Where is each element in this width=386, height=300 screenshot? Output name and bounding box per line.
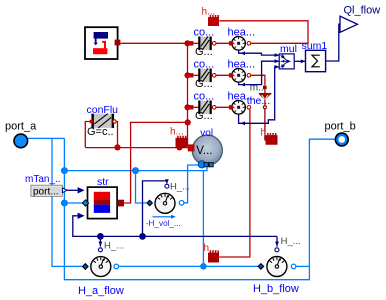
- fluid port_a: [14, 134, 28, 148]
- svg-text:G...: G...: [195, 110, 213, 122]
- signal heaFloBot.Q_flow to mul in3: [239, 67, 280, 123]
- signal heaFloSid.Q_flow to mul in2: [239, 61, 280, 84]
- wire thermal collector down to heat port: [264, 109, 266, 141]
- heat flow sensor hea row1: [229, 37, 251, 51]
- svg-text:conFlu: conFlu: [87, 104, 119, 116]
- conductor conFlu: [90, 114, 117, 128]
- svg-text:H_...: H_...: [170, 181, 190, 192]
- svg-text:H_...: H_...: [104, 240, 124, 251]
- svg-text:co...: co...: [194, 90, 215, 102]
- svg-text:Ql_flow: Ql_flow: [344, 5, 381, 17]
- svg-text:V...: V...: [196, 145, 212, 157]
- svg-text:port_a: port_a: [5, 120, 37, 132]
- svg-text:-H_vol_...: -H_vol_...: [146, 219, 181, 228]
- signal H_vol_flow output: [143, 181, 167, 237]
- wire conFlu right leg: [116, 122, 117, 148]
- str right heat port: [117, 200, 124, 207]
- heat flow sensor hea row2: [229, 69, 251, 83]
- signal mul to sum1: [294, 60, 305, 62]
- stratifier block str: [88, 187, 118, 219]
- wire horizontal to vol ports: [64, 167, 207, 170]
- svg-text:mTan_..: mTan_..: [25, 174, 61, 185]
- mixing volume vol (sphere): [188, 135, 223, 165]
- wire conFlu left leg: [85, 122, 89, 148]
- wire heat distribution vertical: [188, 43, 190, 145]
- signal sum1 to Ql_flow output: [326, 24, 340, 61]
- vol fluid ports: [198, 161, 213, 168]
- enthalpy flow sensor H_a_flow: [83, 248, 119, 277]
- wire conFlu bus to vol heat port: [85, 147, 189, 149]
- junction: [97, 233, 104, 240]
- heat port bottom (comb): [208, 251, 219, 263]
- enthalpy flow sensor H_vol_flow: [147, 184, 184, 213]
- str left fluid port: [82, 200, 88, 206]
- junction: [184, 72, 190, 78]
- signal H_b_flow output up: [276, 236, 278, 246]
- wire collector block to conductor column: [121, 42, 188, 44]
- thermal collector block (top left): [85, 27, 120, 59]
- wire vol port down to sensor bus: [202, 171, 204, 267]
- junction: [200, 263, 207, 270]
- signal H_a_flow output up: [99, 236, 101, 246]
- conductor co row1: [189, 37, 216, 51]
- junction: [114, 144, 120, 150]
- wire heaFloBot to heat port bottom: [219, 109, 250, 257]
- svg-text:port...: port...: [33, 186, 59, 197]
- svg-text:H_a_flow: H_a_flow: [78, 285, 124, 297]
- svg-text:H_b_flow: H_b_flow: [253, 283, 299, 295]
- real expression block port...: [31, 185, 67, 197]
- wire conductor row: [188, 74, 199, 76]
- wire port_a to junction: [28, 137, 64, 139]
- svg-text:G=c..: G=c..: [87, 126, 114, 138]
- svg-text:h...: h...: [261, 127, 275, 138]
- junction: [185, 119, 191, 125]
- svg-text:the...: the...: [247, 95, 270, 107]
- wire branch down to H_vol_flow left port: [136, 171, 147, 203]
- svg-text:port_b: port_b: [325, 120, 356, 132]
- wire conductor row: [188, 42, 199, 44]
- signal enthalpy net to str lower input: [73, 216, 277, 237]
- fluid port_b: [335, 133, 348, 146]
- wire junction to str left port: [64, 202, 82, 204]
- str input arrow upper: [78, 187, 85, 193]
- wire heaFloSid to thermal collector: [251, 75, 265, 85]
- conductor co row2: [189, 69, 216, 83]
- svg-text:co...: co...: [194, 26, 215, 38]
- svg-text:h...: h...: [204, 243, 218, 254]
- signal port expression to str upper input: [67, 189, 78, 191]
- svg-text:m...: m...: [250, 82, 267, 93]
- junction: [132, 167, 139, 174]
- heat port array heaPorVol (comb near vol): [176, 136, 188, 148]
- wire branch to H_b_flow right port: [296, 265, 309, 267]
- svg-text:mul: mul: [280, 43, 297, 55]
- wire heaFloTop to heat port top: [219, 21, 308, 44]
- output connector Ql_flow: [340, 16, 357, 32]
- svg-text:h...: h...: [202, 6, 216, 17]
- wire H_vol_flow right port up to vol port: [184, 165, 198, 203]
- wire conductor row: [188, 106, 199, 108]
- wire port_a branch down to H_a_flow left port: [52, 138, 83, 266]
- heat flow sensor hea row3: [229, 101, 251, 115]
- junction: [61, 167, 68, 174]
- enthalpy flow sensor H_b_flow: [258, 248, 296, 277]
- multiplex block mul: [279, 54, 294, 69]
- svg-text:hea...: hea...: [228, 59, 256, 71]
- svg-text:H_...: H_...: [281, 236, 301, 247]
- svg-text:G...: G...: [195, 46, 213, 58]
- heat port top (square with teeth): [208, 15, 219, 26]
- thermal collector theCol: [259, 86, 272, 109]
- conductor co row3: [189, 101, 216, 115]
- wire H_a_flow right to H_b_flow left: [119, 265, 258, 267]
- svg-text:co...: co...: [194, 58, 215, 70]
- sum block sum1: [306, 50, 326, 71]
- signal heaFloTop.Q_flow to mul in1: [239, 50, 280, 55]
- arrow -H_vol_flow: [153, 216, 172, 218]
- wire str heat port loop to vol: [124, 122, 188, 203]
- str input arrow lower: [78, 213, 85, 219]
- svg-text:hea...: hea...: [228, 27, 256, 39]
- wire main left vertical, bottom bus to port_b: [64, 138, 335, 279]
- junction: [184, 104, 190, 110]
- svg-text:vol: vol: [200, 128, 213, 139]
- junction: [184, 40, 190, 46]
- svg-text:h...: h...: [170, 126, 184, 137]
- junction: [139, 233, 146, 240]
- svg-text:str: str: [97, 176, 109, 188]
- svg-text:sum1: sum1: [302, 40, 328, 52]
- junction: [176, 144, 182, 150]
- heat port side (comb right): [266, 133, 278, 145]
- svg-text:G...: G...: [195, 78, 213, 90]
- junction: [61, 200, 68, 207]
